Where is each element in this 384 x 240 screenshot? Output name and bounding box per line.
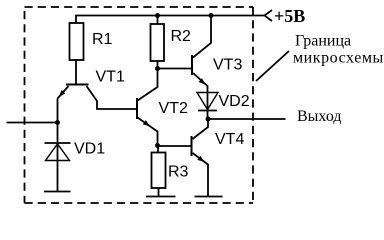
- resistor R1: [70, 23, 84, 60]
- transistor VT2 base bar: [136, 98, 138, 119]
- transistor VT2 emitter: [138, 118, 158, 146]
- resistor R2: [151, 24, 165, 61]
- svg-text:микросхемы: микросхемы: [293, 50, 384, 67]
- wire node to R3: [157, 146, 159, 153]
- node output junction: [206, 117, 211, 122]
- transistor VT3 collector: [193, 16, 211, 58]
- node VT2 emitter junction: [155, 143, 160, 148]
- svg-text:VD2: VD2: [219, 93, 250, 110]
- transistor VT4 collector: [193, 120, 209, 140]
- wire R3 to ground: [158, 188, 160, 197]
- ground of VD1: [44, 191, 71, 193]
- diode VD1 triangle: [46, 144, 70, 161]
- svg-text:VT4: VT4: [215, 131, 244, 148]
- svg-text:+5В: +5В: [274, 6, 305, 26]
- node rail-R2 junction: [155, 13, 160, 18]
- transistor VT1 base bar: [66, 84, 89, 86]
- wire node to VT3 base: [158, 68, 192, 70]
- diode VD1 cathode bar: [45, 142, 71, 144]
- transistor VT4 emitter: [193, 153, 209, 197]
- transistor VT3 emitter: [193, 73, 208, 93]
- node rail-VT3 junction: [209, 13, 214, 18]
- +5V rail wire: [76, 16, 265, 24]
- input wire: [7, 122, 58, 124]
- svg-text:R1: R1: [92, 31, 113, 48]
- chip boundary (dashed): [25, 7, 254, 203]
- svg-text:VT3: VT3: [213, 57, 242, 74]
- callout line to chip boundary: [256, 51, 289, 81]
- node input junction: [55, 120, 60, 125]
- svg-text:VT2: VT2: [159, 100, 188, 117]
- diode VD2 triangle: [197, 93, 218, 110]
- node R2-VT2-VT3 junction: [155, 66, 160, 71]
- resistor R3: [152, 153, 166, 189]
- transistor VT4 base bar: [191, 136, 193, 156]
- svg-text:VT1: VT1: [96, 69, 125, 86]
- wire rail to R2: [157, 16, 159, 25]
- ground of VT4: [195, 196, 223, 198]
- transistor VT2 collector wire: [138, 69, 158, 101]
- wire R1 bottom to VT1 base: [75, 60, 77, 85]
- svg-text:Выход: Выход: [297, 108, 342, 125]
- wire R2 bottom to node: [157, 61, 159, 69]
- wire VD2 to output node: [207, 93, 209, 120]
- svg-text:R2: R2: [171, 28, 192, 45]
- wire VT2 emitter node to VT4 base: [158, 145, 191, 147]
- output wire: [208, 118, 286, 120]
- wire VT1 collector to VT2 base: [87, 86, 137, 109]
- svg-text:VD1: VD1: [74, 141, 105, 158]
- svg-text:Граница: Граница: [295, 33, 351, 50]
- transistor VT1 emitter: [58, 86, 69, 99]
- diode VD2 cathode bar: [198, 110, 217, 112]
- +5V terminal chevron: [265, 10, 273, 21]
- svg-text:R3: R3: [168, 164, 189, 181]
- wire node through VD1 to ground: [57, 123, 59, 192]
- wire VT1 emitter to input node: [57, 99, 59, 123]
- transistor VT3 base bar: [191, 55, 193, 75]
- ground of R3: [146, 196, 176, 198]
